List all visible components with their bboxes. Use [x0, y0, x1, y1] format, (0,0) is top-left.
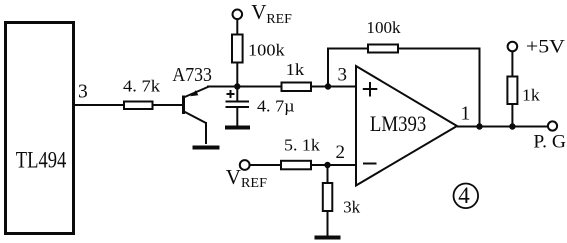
wire VREF to resistor 100k [236, 19, 238, 35]
svg-text:100k: 100k [248, 41, 286, 60]
wire +5V to pull-up 1k [511, 51, 513, 77]
svg-text:5. 1k: 5. 1k [284, 136, 321, 155]
svg-text:1: 1 [461, 104, 471, 125]
svg-text:4: 4 [458, 183, 470, 208]
svg-text:3: 3 [78, 82, 88, 103]
svg-text:2: 2 [336, 142, 346, 163]
wire pull-up to output [511, 104, 513, 127]
wire 100k to node A [236, 63, 238, 87]
wire 4.7k to Q1 base [153, 104, 184, 106]
capacitor C1 4.7u (electrolytic) [226, 87, 295, 127]
resistor R2 100k (vertical) [232, 35, 243, 63]
transistor Q1 A733 (PNP) [172, 64, 212, 144]
wire output to P.G terminal [457, 126, 548, 128]
wire TL494 pin3 to resistor 4.7k [74, 104, 125, 106]
resistor R7 3k (vertical) [323, 183, 333, 211]
terminal VREF (top) [233, 10, 243, 20]
node B junction (feedback tap) [325, 83, 331, 89]
svg-text:4. 7k: 4. 7k [123, 77, 161, 96]
wire 5.1k to LM393 pin 2 [311, 164, 356, 166]
svg-text:4. 7µ: 4. 7µ [257, 97, 295, 116]
node A junction [234, 83, 240, 89]
resistor R5 1k (pull-up) [507, 77, 517, 105]
wire emitter / node A to resistor 1k [207, 86, 282, 88]
ground at Q1 collector [193, 146, 220, 150]
resistor R1 4.7k [124, 102, 153, 110]
resistor R4 100k (feedback) [368, 45, 398, 53]
svg-text:TL494: TL494 [16, 148, 67, 173]
figure number 4 (circled) [454, 183, 479, 208]
terminal VREF (lower) [240, 160, 250, 170]
svg-text:VREF: VREF [251, 0, 292, 27]
terminal P.G [548, 121, 557, 130]
node C junction (feedback / output) [476, 123, 482, 129]
IC U1 TL494 [6, 23, 74, 234]
resistor R3 1k (series to pin 3) [282, 83, 312, 92]
svg-text:3k: 3k [343, 197, 361, 216]
svg-text:3: 3 [338, 65, 348, 86]
svg-text:P. G: P. G [533, 132, 566, 153]
ground at 3k [315, 236, 341, 240]
resistor R6 5.1k [281, 161, 311, 170]
svg-text:A733: A733 [172, 64, 212, 86]
ground at C1 [225, 126, 250, 130]
terminal +5V [508, 42, 518, 52]
wire node E to resistor 3k [327, 165, 329, 184]
node E junction (pin 2 / 3k) [324, 162, 330, 168]
wire 1k to LM393 pin 3 [311, 86, 356, 88]
op-amp U2 LM393 [356, 66, 457, 186]
wire feedback loop (node B up, across top, down to output) [328, 49, 480, 127]
svg-text:+5V: +5V [526, 37, 565, 58]
svg-text:1k: 1k [286, 60, 305, 79]
svg-text:1k: 1k [522, 86, 541, 105]
svg-text:100k: 100k [366, 18, 401, 37]
wire 3k to ground [327, 211, 329, 236]
svg-text:LM393: LM393 [370, 111, 426, 136]
node D junction (pull-up / output) [509, 123, 515, 129]
wire VREF to resistor 5.1k [250, 164, 281, 166]
